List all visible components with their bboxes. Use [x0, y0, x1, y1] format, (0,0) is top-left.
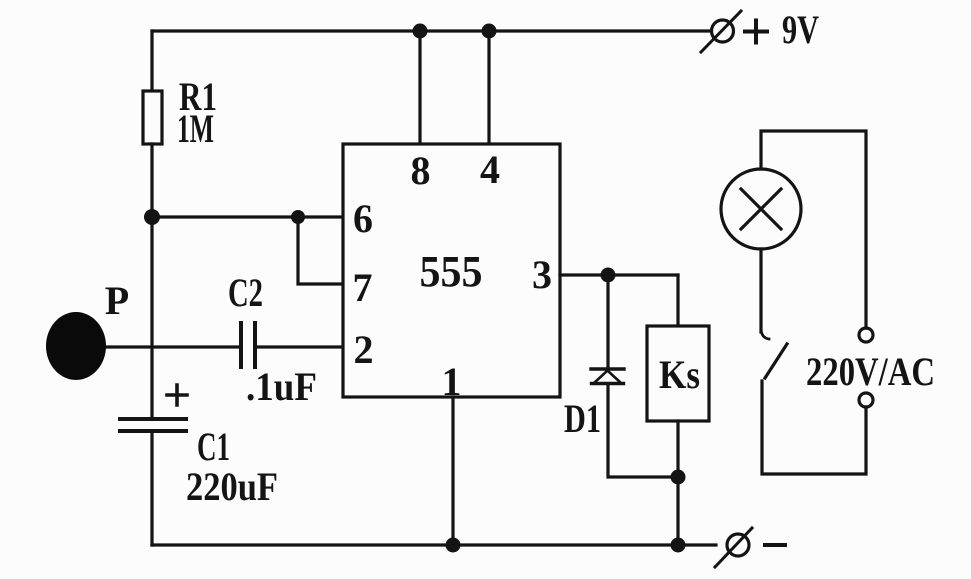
svg-text:220uF: 220uF: [186, 464, 278, 509]
svg-text:3: 3: [532, 252, 552, 297]
svg-text:.1uF: .1uF: [246, 364, 317, 409]
svg-text:2: 2: [354, 327, 374, 372]
svg-text:6: 6: [353, 196, 373, 241]
svg-text:D1: D1: [564, 396, 601, 441]
svg-text:220V/AC: 220V/AC: [806, 349, 935, 394]
svg-text:C1: C1: [197, 424, 230, 469]
svg-text:Ks: Ks: [659, 352, 700, 397]
svg-text:C2: C2: [228, 270, 263, 315]
svg-text:4: 4: [480, 147, 500, 192]
svg-text:9V: 9V: [782, 7, 819, 52]
svg-text:555: 555: [420, 247, 483, 296]
svg-text:P: P: [105, 278, 129, 323]
svg-text:8: 8: [411, 148, 431, 193]
svg-text:7: 7: [353, 265, 373, 310]
svg-text:1M: 1M: [177, 106, 214, 151]
svg-text:1: 1: [442, 359, 462, 404]
